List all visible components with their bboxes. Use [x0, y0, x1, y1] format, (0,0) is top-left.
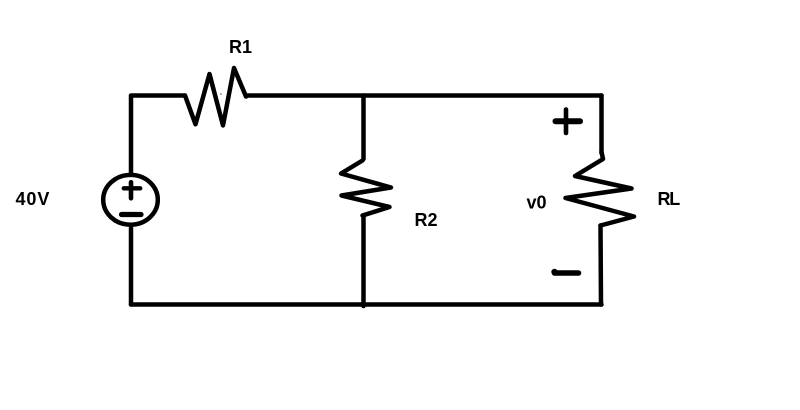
- svg-text:40V: 40V: [16, 189, 51, 209]
- wire middle upper segment (node between R1 and R2): [361, 96, 366, 160]
- resistor R2: [341, 161, 391, 216]
- svg-text:R1: R1: [229, 37, 252, 57]
- wire right upper segment: [599, 96, 604, 154]
- wire top segment from R1 to top-right corner: [246, 93, 602, 98]
- voltage source minus sign: [122, 212, 142, 217]
- voltage source V1 circle: [103, 175, 158, 225]
- wire left lower segment: [129, 228, 134, 305]
- wire middle lower segment: [361, 216, 366, 307]
- svg-text:RL: RL: [658, 189, 681, 209]
- svg-text:v0: v0: [527, 193, 547, 213]
- polarity minus sign left-end blob: [551, 269, 557, 275]
- polarity minus sign at RL bottom: [555, 270, 579, 276]
- wire bottom segment: [131, 302, 602, 307]
- wire right lower segment: [598, 226, 603, 305]
- resistor R1: [185, 68, 246, 125]
- polarity plus sign at RL top: [564, 110, 569, 134]
- stray dot near R1: [220, 93, 222, 95]
- svg-text:R2: R2: [415, 210, 438, 230]
- wire top-left segment: [131, 96, 185, 175]
- resistor RL: [566, 152, 635, 226]
- voltage source plus sign: [129, 182, 134, 198]
